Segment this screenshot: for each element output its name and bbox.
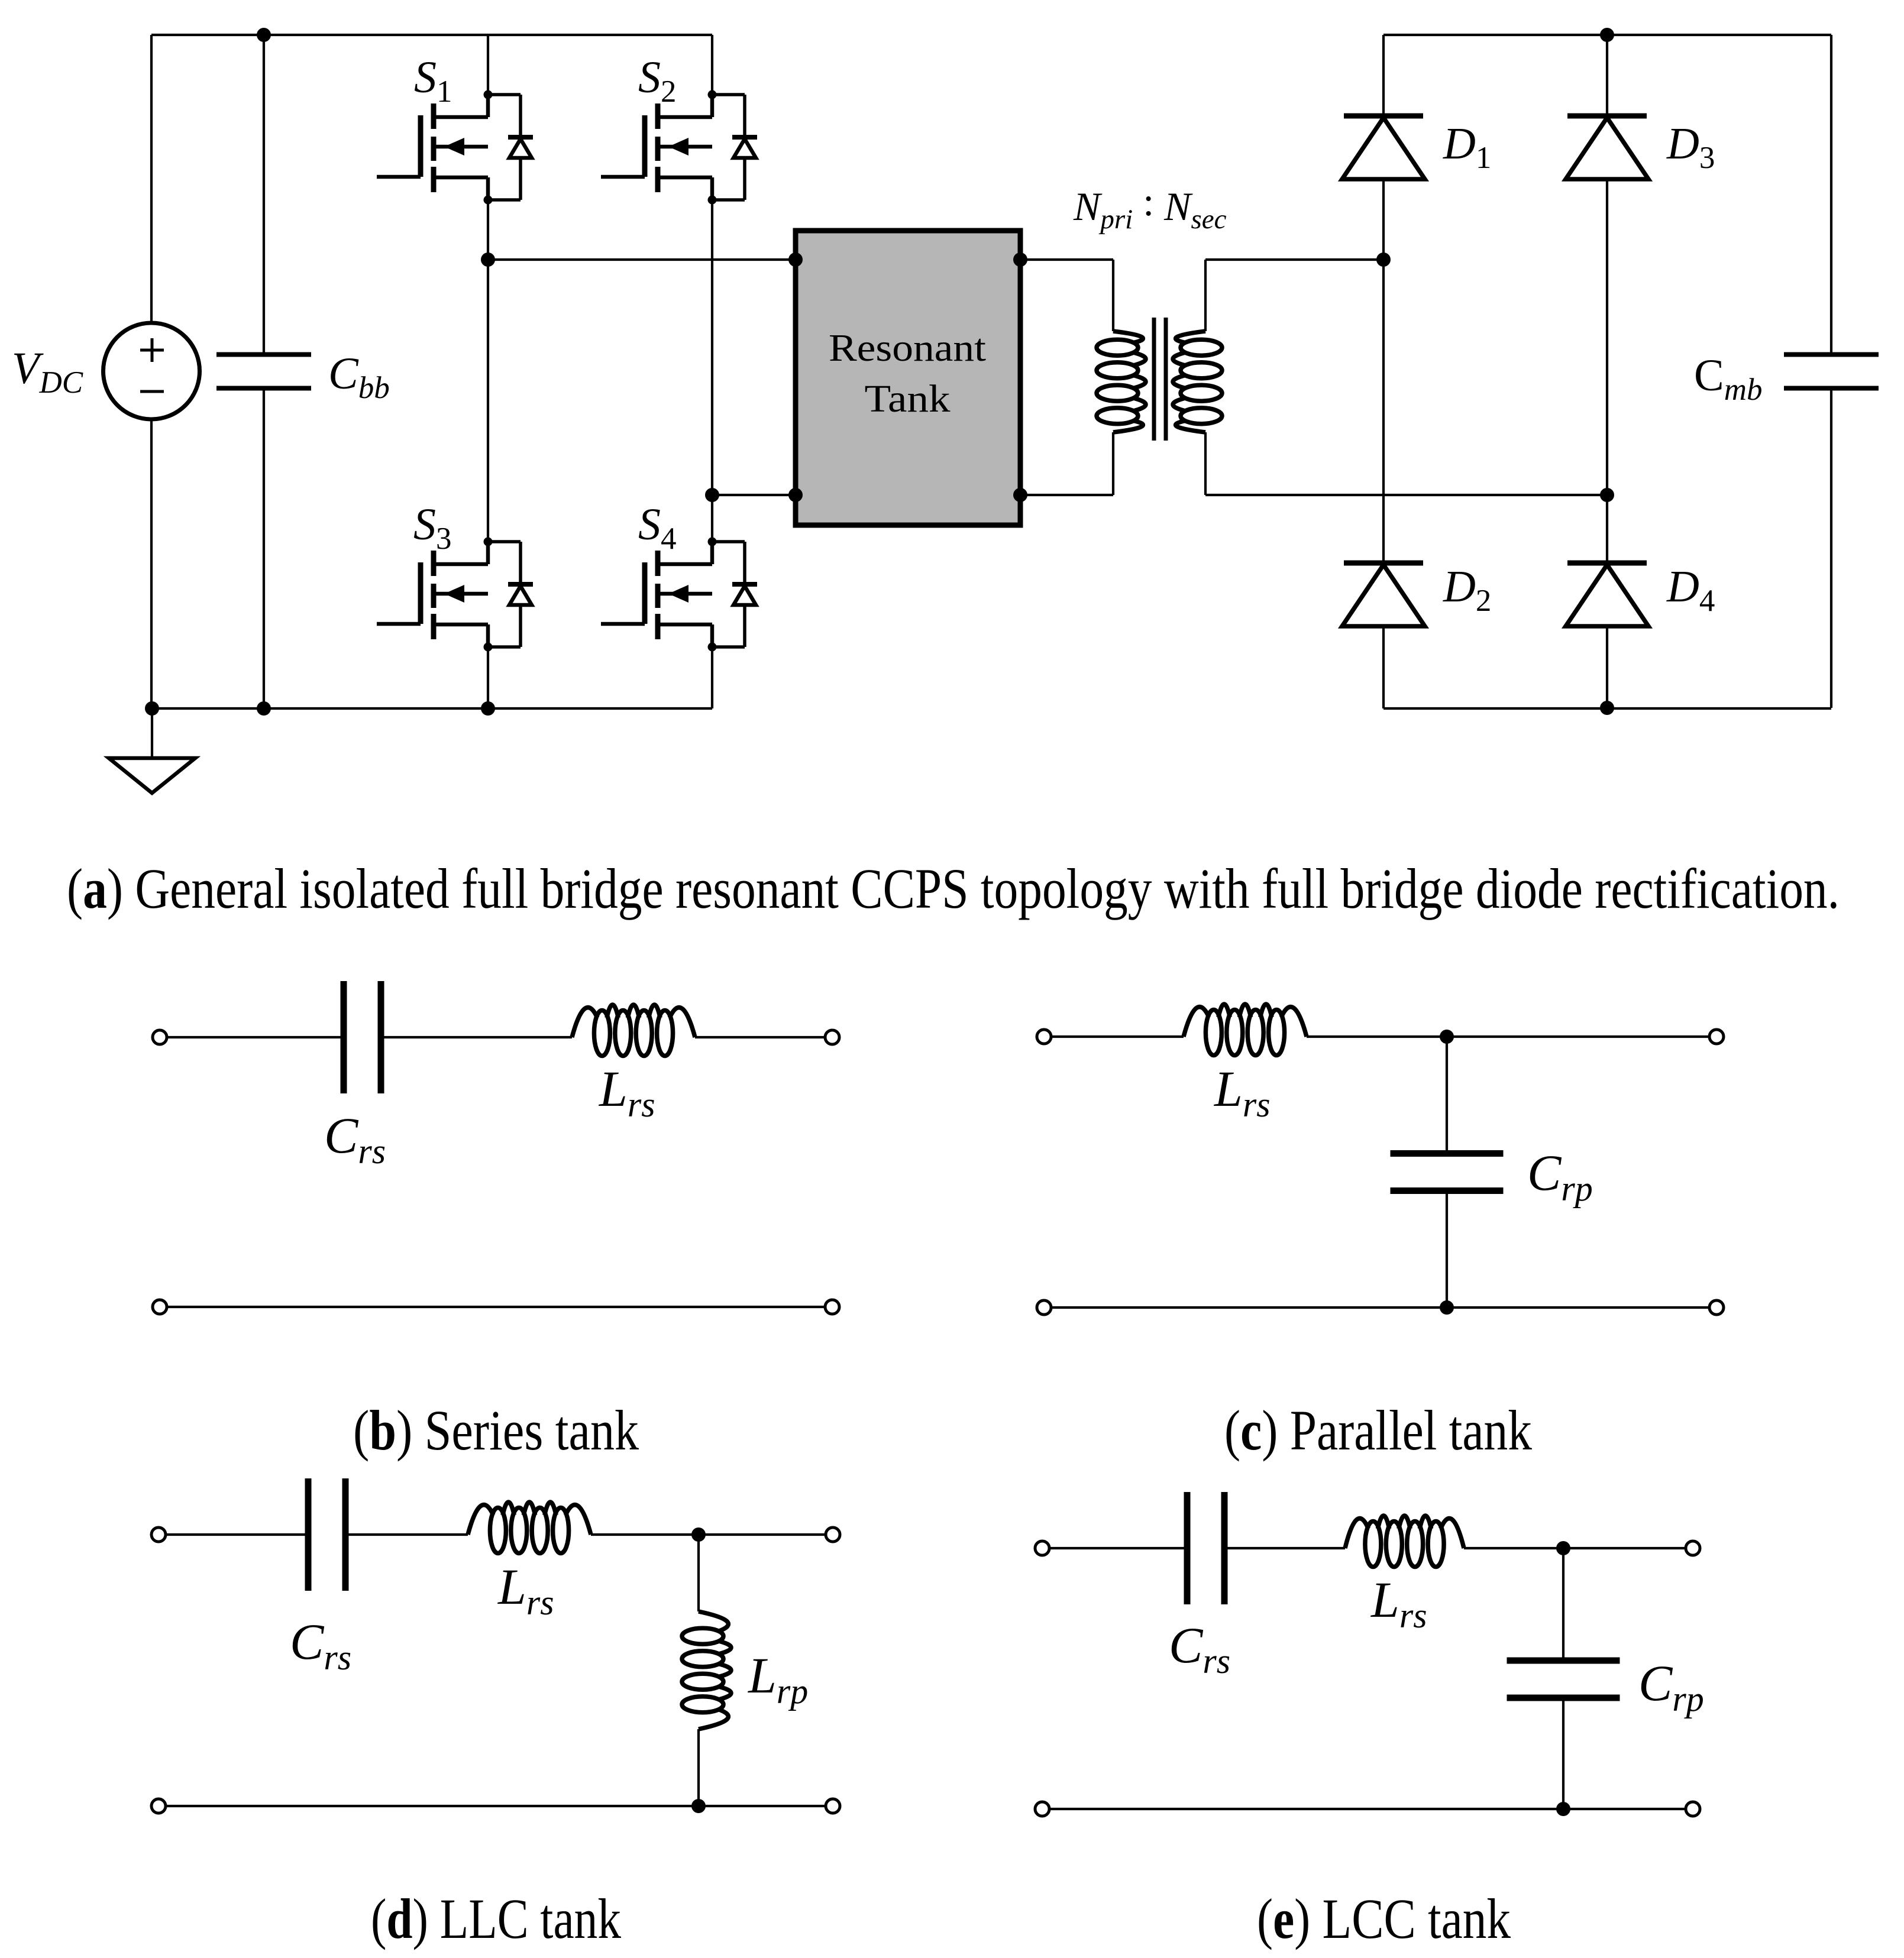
svg-text:(c) Parallel tank: (c) Parallel tank [1224, 1399, 1532, 1462]
svg-text:(b) Series tank: (b) Series tank [353, 1399, 639, 1462]
svg-text:Resonant: Resonant [829, 326, 986, 370]
svg-text:(d) LLC tank: (d) LLC tank [371, 1887, 621, 1950]
svg-text:(a) General isolated full brid: (a) General isolated full bridge resonan… [67, 857, 1840, 920]
svg-text:(e) LCC tank: (e) LCC tank [1257, 1887, 1511, 1950]
svg-text:Tank: Tank [865, 377, 951, 420]
